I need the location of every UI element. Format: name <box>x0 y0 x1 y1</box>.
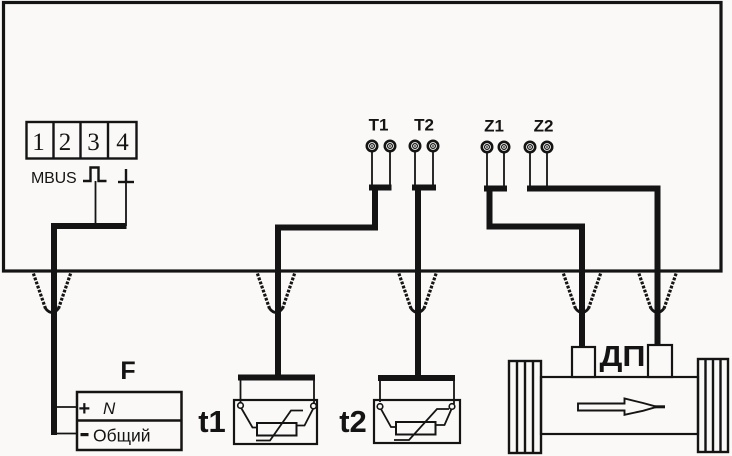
terminal Z2 pin a <box>525 142 535 152</box>
t1 cap bar <box>238 375 315 381</box>
T2 sensor cable (thick) <box>412 187 436 377</box>
T1 pin b lead wire <box>389 152 391 185</box>
svg-text:+: + <box>79 398 91 420</box>
t1 inner lead right <box>297 409 314 426</box>
temperature sensor t1 <box>234 375 317 445</box>
wire to F minus terminal <box>54 433 78 435</box>
F minus terminal label <box>81 433 89 436</box>
power box F <box>77 392 182 450</box>
MBUS output cable (thick) <box>54 226 127 435</box>
flow transducer right flange <box>698 359 728 452</box>
t2 terminal circle left <box>377 404 383 410</box>
calculator unit enclosure <box>4 3 722 272</box>
t1 body <box>234 400 317 444</box>
ground / common symbol <box>118 169 134 182</box>
Z1 flow sensor cable (thick) <box>484 188 582 347</box>
svg-text:T2: T2 <box>414 116 434 135</box>
t2 cap bar <box>378 375 455 381</box>
wire to F plus terminal <box>54 406 78 408</box>
t2 inner lead right <box>436 409 452 425</box>
t2 lead left <box>379 381 381 402</box>
t1 terminal circle right <box>311 403 317 409</box>
cable gland Z2 <box>639 274 676 313</box>
terminal T1 pin a <box>367 141 377 151</box>
t2 body <box>374 400 460 443</box>
t1 lead right <box>313 380 315 404</box>
t1 terminal circle left <box>238 403 244 409</box>
t2 inner lead left <box>381 409 396 427</box>
temperature sensor t2 <box>374 375 460 443</box>
svg-text:ДП: ДП <box>600 341 646 373</box>
flow direction arrow <box>578 399 665 415</box>
svg-text:F: F <box>120 357 135 385</box>
svg-text:Общий: Общий <box>93 426 151 446</box>
terminal Z1 pin b <box>499 142 509 152</box>
terminal Z2 pin b <box>542 142 552 152</box>
terminal T2 pin b <box>428 141 438 151</box>
terminal Z1 pin a <box>482 142 492 152</box>
cable gland t1 <box>257 274 294 313</box>
svg-text:1: 1 <box>32 129 45 156</box>
pulse symbol <box>83 168 107 182</box>
svg-text:t2: t2 <box>339 404 367 439</box>
svg-text:MBUS: MBUS <box>31 170 76 187</box>
svg-text:N: N <box>103 399 116 418</box>
T2 pin b lead wire <box>432 152 434 185</box>
svg-text:Z2: Z2 <box>534 117 554 136</box>
svg-text:4: 4 <box>116 129 129 156</box>
T1 sensor cable (thick) <box>278 187 392 377</box>
svg-text:T1: T1 <box>369 116 389 135</box>
t1 resistor <box>257 423 297 436</box>
t2 lead right <box>453 381 455 404</box>
Z1 pin a lead wire <box>486 153 488 186</box>
cable gland Z1 <box>563 274 600 313</box>
svg-text:Z1: Z1 <box>484 117 504 136</box>
t2 terminal circle right <box>449 404 455 410</box>
cable gland t2 <box>399 274 436 313</box>
terminal T1 pin b <box>385 141 395 151</box>
wire pulse to MBUS bus bar <box>95 181 97 226</box>
flow transducer body <box>541 377 698 434</box>
terminal block 1-2-3-4 <box>27 122 137 159</box>
flow sensor boss 1 <box>572 347 595 377</box>
T1 pin a lead wire <box>371 152 373 185</box>
svg-text:t1: t1 <box>198 404 226 439</box>
Z2 flow sensor cable (thick) <box>527 189 658 347</box>
cable gland MBUS <box>33 274 70 313</box>
svg-text:3: 3 <box>87 129 100 156</box>
t1 thermistor stroke <box>256 411 303 441</box>
terminal T2 pin a <box>410 141 420 151</box>
t2 thermistor stroke <box>394 409 449 440</box>
t2 resistor <box>396 422 436 435</box>
flow sensor boss 2 <box>648 345 672 377</box>
T2 pin a lead wire <box>414 152 416 185</box>
Z2 pin b lead wire <box>546 153 548 186</box>
wire ground to MBUS bus bar <box>125 182 127 226</box>
t1 lead left <box>240 380 242 403</box>
Z1 pin b lead wire <box>503 153 505 186</box>
flow transducer left flange <box>509 361 541 453</box>
Z2 pin a lead wire <box>529 153 531 186</box>
svg-text:2: 2 <box>59 129 72 156</box>
t1 inner lead left <box>242 409 258 428</box>
